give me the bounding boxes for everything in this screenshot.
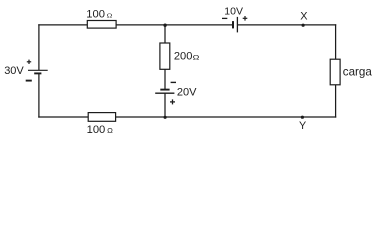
wire top-left to R1 — [39, 24, 87, 26]
wire middle branch: top node to R2 — [164, 25, 166, 43]
svg-text:Y: Y — [299, 120, 306, 132]
battery V2 20V short thick plate — [160, 89, 169, 91]
svg-text:Ω: Ω — [193, 54, 200, 61]
wire right branch upper — [335, 25, 337, 59]
svg-text:X: X — [300, 10, 308, 22]
svg-text:20V: 20V — [177, 87, 197, 99]
wire middle branch: 20V battery to bottom node — [164, 93, 166, 117]
node Y dot — [301, 116, 304, 119]
battery V3 10V long plate — [236, 17, 238, 33]
svg-text:100: 100 — [86, 8, 105, 20]
load box carga — [330, 59, 340, 85]
minus sign 20V — [171, 81, 176, 83]
wire left branch upper — [38, 25, 40, 70]
node junction dot bottom middle — [164, 116, 167, 119]
wire right branch lower — [335, 85, 337, 117]
minus sign 10V — [222, 17, 227, 19]
svg-text:Ω: Ω — [107, 126, 113, 135]
resistor R1 100 ohm top — [87, 21, 116, 29]
plus sign 30V — [27, 60, 31, 64]
resistor R2 200 ohm middle — [160, 43, 170, 69]
wire 10V battery to top-right corner — [238, 24, 335, 26]
node X dot — [302, 24, 305, 27]
resistor R3 100 ohm bottom — [88, 113, 115, 122]
svg-text:carga: carga — [343, 66, 373, 79]
svg-text:Ω: Ω — [107, 13, 113, 19]
plus sign 20V — [170, 99, 175, 104]
svg-text:30V: 30V — [4, 65, 24, 77]
battery V1 30V short thick plate — [34, 72, 41, 74]
wire R3 to bottom-right corner — [116, 116, 336, 118]
wire R1 to 10V battery — [116, 24, 232, 26]
svg-text:10V: 10V — [224, 5, 243, 17]
wire middle branch: R2 to 20V battery — [164, 69, 166, 89]
node junction dot top middle — [163, 24, 166, 27]
wire bottom-left to R3 — [39, 116, 88, 118]
battery V3 10V short thick plate — [232, 21, 234, 28]
svg-text:100: 100 — [87, 124, 106, 136]
battery V2 20V long plate — [155, 92, 174, 94]
plus sign 10V — [243, 16, 248, 21]
battery V1 30V long plate — [28, 69, 48, 71]
minus sign 30V bold — [26, 80, 32, 82]
wire left branch lower — [38, 74, 40, 117]
svg-text:200: 200 — [174, 51, 193, 63]
